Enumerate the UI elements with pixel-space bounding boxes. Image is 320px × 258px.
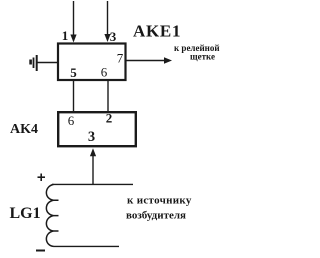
svg-text:6: 6 — [68, 113, 75, 128]
svg-text:возбудителя: возбудителя — [126, 210, 186, 222]
wire pin7 to relay brush (right arrow) — [127, 60, 166, 62]
block AK4 — [58, 112, 136, 146]
svg-text:2: 2 — [106, 111, 113, 126]
wire AKE1 pin6 to AK4 pin2 — [107, 80, 109, 112]
svg-text:3: 3 — [110, 29, 117, 44]
ground (left of AKE1) — [37, 62, 57, 64]
svg-text:3: 3 — [88, 129, 95, 145]
inductor LG1 (coil) — [46, 184, 58, 246]
svg-text:AKE1: AKE1 — [133, 22, 181, 41]
minus terminal — [36, 250, 45, 252]
svg-text:щетке: щетке — [190, 52, 215, 62]
wire input 1 (vertical into AKE1 pin 1) — [73, 1, 75, 36]
wire AKE1 pin5 to AK4 pin6 — [73, 80, 75, 112]
svg-text:1: 1 — [62, 28, 69, 43]
wire exciter to AK4 pin 3 (up arrow) — [92, 154, 94, 185]
plus terminal — [38, 176, 46, 178]
block AKE1 (relay box) — [58, 44, 126, 81]
svg-text:7: 7 — [117, 51, 124, 66]
wire coil top to exciter source — [52, 183, 133, 185]
wire input 3 (vertical into AKE1 pin 3) — [107, 1, 109, 36]
svg-text:6: 6 — [101, 65, 108, 80]
svg-text:AK4: AK4 — [10, 122, 38, 137]
svg-text:5: 5 — [70, 65, 77, 80]
svg-text:к источнику: к источнику — [127, 195, 192, 207]
svg-text:LG1: LG1 — [10, 205, 41, 222]
wire coil bottom to exciter source — [54, 245, 120, 247]
